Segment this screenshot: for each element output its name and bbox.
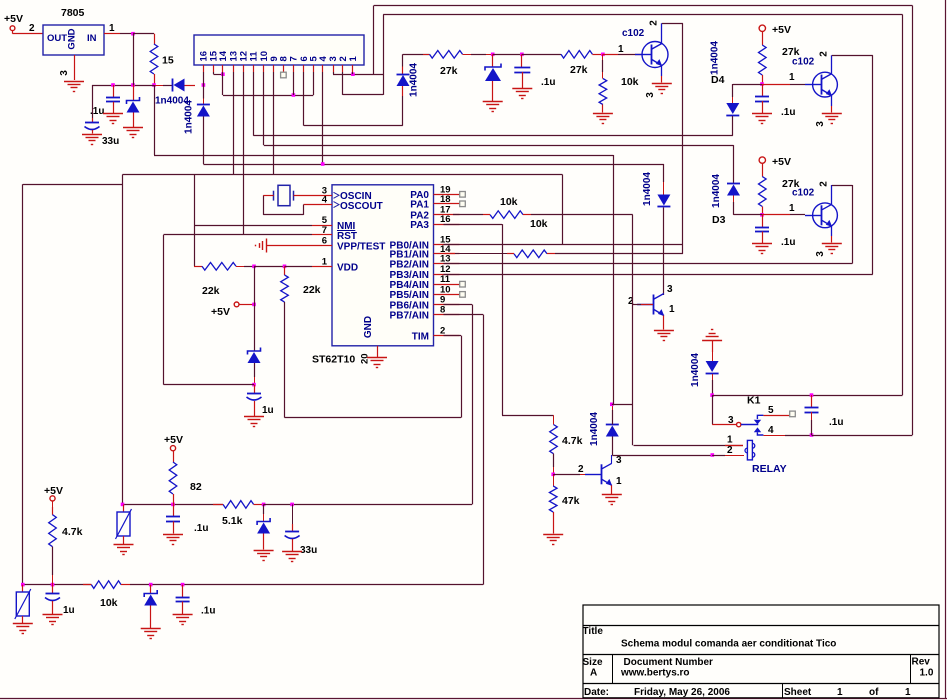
wire xyxy=(92,85,94,123)
pin 18 stub xyxy=(434,203,460,205)
svg-text:1: 1 xyxy=(616,476,622,487)
svg-text:6: 6 xyxy=(322,236,327,247)
wire xyxy=(712,395,902,397)
diode 1n4004 D1 xyxy=(155,79,189,107)
connector J1 pin 6 label xyxy=(299,56,310,61)
svg-text:+5V: +5V xyxy=(44,485,63,497)
pin 16 number xyxy=(440,214,451,225)
node junction xyxy=(152,83,156,87)
wire xyxy=(762,84,805,86)
connector J1 pin 16 label xyxy=(199,51,210,62)
node junction xyxy=(252,303,256,307)
wire xyxy=(113,85,115,97)
resistor 27k R4 xyxy=(759,45,800,75)
wire xyxy=(732,116,734,136)
svg-text:PA1: PA1 xyxy=(410,200,429,211)
svg-text:82: 82 xyxy=(190,481,202,493)
wire xyxy=(214,72,223,75)
connector J1 pin 15 label xyxy=(209,50,220,61)
wire xyxy=(682,23,684,254)
ground xyxy=(367,358,387,368)
wire xyxy=(663,164,665,195)
svg-text:1: 1 xyxy=(789,203,795,214)
ground xyxy=(13,624,33,634)
capacitor 1u C6 xyxy=(247,385,274,416)
wire xyxy=(812,435,913,437)
svg-text:4.7k: 4.7k xyxy=(62,526,83,538)
svg-text:A: A xyxy=(590,668,597,679)
wire xyxy=(562,175,564,245)
wire xyxy=(712,340,714,361)
wire xyxy=(233,72,235,175)
ground xyxy=(123,128,143,138)
node junction xyxy=(491,53,495,57)
ground xyxy=(43,615,63,625)
pin 11 number xyxy=(440,274,451,285)
title block text Date xyxy=(584,687,609,698)
connector J1 pin 12 label xyxy=(239,51,250,62)
wire xyxy=(273,72,275,175)
svg-text:PB7/AIN: PB7/AIN xyxy=(390,310,429,321)
wire xyxy=(832,185,853,187)
svg-text:GND: GND xyxy=(67,28,78,49)
svg-text:3: 3 xyxy=(815,251,826,257)
wire xyxy=(762,214,805,216)
pin name GND xyxy=(363,316,374,338)
wire xyxy=(154,74,156,85)
ground xyxy=(543,535,563,545)
wire xyxy=(173,521,175,533)
svg-text:2: 2 xyxy=(29,23,35,34)
svg-text:3: 3 xyxy=(616,455,622,466)
svg-text:PB2/AIN: PB2/AIN xyxy=(390,259,429,270)
svg-text:11: 11 xyxy=(249,51,260,62)
svg-text:10k: 10k xyxy=(621,76,639,88)
capacitor 1u C10 xyxy=(45,585,75,616)
diode zener D13 xyxy=(144,585,157,606)
svg-text:1u: 1u xyxy=(63,605,75,616)
svg-text:IN: IN xyxy=(87,33,97,44)
pin 11 stub xyxy=(434,284,460,286)
svg-text:Title: Title xyxy=(583,626,604,637)
svg-text:33u: 33u xyxy=(300,545,317,556)
pin 1 label xyxy=(616,476,622,487)
resistor 22k R7 xyxy=(281,275,321,302)
thermistor RT2 xyxy=(15,585,31,619)
diode 1n4004 D5 xyxy=(397,63,420,97)
wire xyxy=(284,266,286,275)
ground xyxy=(254,551,274,561)
svg-text:+5V: +5V xyxy=(164,434,183,446)
regulator U2 7805 xyxy=(43,25,104,55)
svg-text:22k: 22k xyxy=(202,285,220,297)
power +5V terminal xyxy=(211,302,239,318)
wire xyxy=(130,584,483,586)
pin 2 label xyxy=(727,445,733,456)
node junction xyxy=(283,265,287,269)
wire xyxy=(133,85,135,100)
pin 2 label xyxy=(578,464,584,475)
svg-text:33u: 33u xyxy=(102,136,119,147)
wire xyxy=(133,34,155,45)
wire xyxy=(243,72,245,235)
relay K1 contact common xyxy=(741,424,758,426)
wire xyxy=(602,105,604,113)
wire xyxy=(603,54,642,56)
svg-text:1u: 1u xyxy=(262,405,274,416)
thermistor RT1 xyxy=(116,504,132,539)
svg-text:1: 1 xyxy=(669,304,675,315)
svg-text:7805: 7805 xyxy=(61,7,85,19)
pin 5 number xyxy=(322,215,328,226)
svg-text:5: 5 xyxy=(768,405,774,416)
title block xyxy=(583,605,939,698)
wire xyxy=(831,96,833,113)
relay K1 pin 3 terminal xyxy=(712,415,741,427)
power +5V terminal xyxy=(759,24,791,36)
ground xyxy=(114,545,134,555)
wire xyxy=(521,54,523,67)
wire xyxy=(22,616,24,623)
pin 16 stub xyxy=(434,224,460,226)
wire xyxy=(444,274,873,276)
svg-text:2: 2 xyxy=(819,51,830,57)
ground xyxy=(483,102,503,112)
ground xyxy=(82,135,102,145)
connector J1 pin 7 label xyxy=(289,56,300,61)
pin name PB6/AIN xyxy=(390,300,429,311)
wire xyxy=(492,81,494,101)
wire xyxy=(712,455,744,457)
resistor 4.7k R10 xyxy=(550,425,583,454)
svg-text:1: 1 xyxy=(789,72,795,83)
pin 9 stub xyxy=(434,304,460,306)
diode 1n4004 D11 xyxy=(690,353,719,387)
svg-text:15: 15 xyxy=(162,55,174,67)
diode 1n4004 D10 xyxy=(589,412,619,446)
wire xyxy=(22,184,24,584)
ground xyxy=(752,114,772,124)
svg-text:RST: RST xyxy=(337,231,357,242)
resistor 27k R2 xyxy=(561,51,592,77)
wire xyxy=(203,72,205,85)
ground xyxy=(822,114,842,124)
ground xyxy=(103,114,123,124)
svg-text:3: 3 xyxy=(645,92,656,98)
wire xyxy=(373,6,375,75)
svg-text:27k: 27k xyxy=(440,65,458,77)
pin 4 number xyxy=(322,195,328,206)
wire xyxy=(194,266,202,268)
pin 20 stub xyxy=(360,346,378,364)
wire xyxy=(185,85,196,87)
wire xyxy=(133,113,135,128)
svg-text:10k: 10k xyxy=(100,597,118,609)
pin name PB2/AIN xyxy=(390,259,429,270)
pin 1 label xyxy=(618,44,624,55)
connector J1 pin 3 stub xyxy=(333,65,335,72)
wire xyxy=(734,214,763,216)
pin 1 number xyxy=(322,256,328,267)
wire xyxy=(662,23,683,25)
wire xyxy=(253,135,732,137)
svg-text:2: 2 xyxy=(649,20,660,26)
label D4 xyxy=(711,74,725,86)
svg-text:TIM: TIM xyxy=(412,331,429,342)
svg-text:Document Number: Document Number xyxy=(624,657,714,668)
transistor Q2 c102 xyxy=(792,57,837,98)
node junction xyxy=(321,162,325,166)
wire xyxy=(203,164,664,166)
wire xyxy=(831,226,833,242)
power +5V terminal xyxy=(44,485,63,501)
svg-text:VDD: VDD xyxy=(337,263,358,274)
pin name OSCOUT xyxy=(334,201,383,212)
diode 1n4004 D8 xyxy=(642,172,670,207)
pin 12 number xyxy=(440,264,451,275)
wire xyxy=(333,72,383,75)
pin 3 label xyxy=(815,121,826,127)
pin 17 stub xyxy=(434,214,460,216)
no-connect PA0 xyxy=(460,192,466,198)
relay K1 contact NC xyxy=(754,415,764,424)
svg-text:16: 16 xyxy=(440,214,451,225)
pin 18 number xyxy=(440,194,451,205)
wire xyxy=(463,54,493,56)
resistor 27k R5 xyxy=(759,177,800,207)
svg-text:22k: 22k xyxy=(303,284,321,296)
resistor 15 xyxy=(150,44,174,74)
relay K1 coil xyxy=(745,440,755,460)
node junction xyxy=(351,72,355,76)
svg-text:+5V: +5V xyxy=(772,156,791,168)
wire xyxy=(444,244,683,246)
node junction xyxy=(202,83,206,87)
diode 1n4004 D3 xyxy=(711,174,740,208)
node junction xyxy=(810,433,814,437)
svg-text:Sheet: Sheet xyxy=(784,687,812,698)
wire xyxy=(602,54,604,78)
capacitor 33u C2 xyxy=(85,123,120,148)
pin 7 stub xyxy=(322,234,332,236)
wire xyxy=(832,55,873,57)
svg-text:1.0: 1.0 xyxy=(920,668,934,679)
wire xyxy=(254,401,256,416)
node junction xyxy=(149,583,153,587)
title block text Title xyxy=(583,626,604,637)
node junction xyxy=(610,403,614,407)
relay K1 contact NO xyxy=(754,427,764,435)
pin 3 label xyxy=(645,92,656,98)
power +5V terminal xyxy=(759,156,791,168)
wire xyxy=(254,363,256,385)
svg-text:13: 13 xyxy=(440,254,451,265)
diode 1n4004 D4 xyxy=(710,41,740,116)
node junction xyxy=(551,473,555,477)
wire xyxy=(222,72,224,95)
node junction xyxy=(111,83,115,87)
pin 1 label xyxy=(789,203,795,214)
wire xyxy=(902,15,904,396)
pin 3 label xyxy=(815,251,826,257)
ground xyxy=(602,495,622,505)
connector J1 pin 3 label xyxy=(328,56,339,61)
title block text date value xyxy=(634,687,730,698)
capacitor .1u C11 xyxy=(176,585,216,617)
resistor 22k R6 xyxy=(202,263,236,298)
node junction xyxy=(181,583,185,587)
wire xyxy=(303,72,305,126)
connector J1 pin 5 stub xyxy=(313,65,315,72)
connector J1 pin 10 label xyxy=(259,51,270,62)
pin 14 stub xyxy=(434,253,460,255)
wire xyxy=(263,534,265,550)
wire xyxy=(811,412,813,435)
node junction xyxy=(810,393,814,397)
svg-text:+5V: +5V xyxy=(772,24,791,36)
wire xyxy=(444,253,508,255)
wire xyxy=(150,606,152,629)
wire xyxy=(123,174,563,176)
capacitor .1u C7 xyxy=(805,395,844,428)
svg-text:3: 3 xyxy=(667,284,673,295)
title block text Document Number xyxy=(624,657,714,668)
no-connect PB5 xyxy=(460,292,466,298)
pin 19 number xyxy=(440,184,451,195)
ground VPP xyxy=(256,239,323,253)
transistor Q3 c102 xyxy=(792,188,837,228)
wire xyxy=(52,547,54,585)
node junction xyxy=(520,53,524,57)
pin 6 stub xyxy=(322,245,332,247)
resistor 10k R8 xyxy=(490,196,523,218)
wire xyxy=(612,404,633,406)
wire xyxy=(52,601,54,614)
title block text 1.0 xyxy=(920,668,934,679)
svg-text:2: 2 xyxy=(819,181,830,187)
wire xyxy=(23,184,123,186)
pin 2 stub xyxy=(434,335,460,337)
no-connect PA1 xyxy=(460,201,466,207)
no-connect relay pin 5 xyxy=(790,411,796,417)
svg-text:7: 7 xyxy=(289,56,300,61)
wire xyxy=(123,536,125,544)
wire xyxy=(203,117,205,165)
wire xyxy=(173,451,175,462)
pin 2 label xyxy=(628,296,634,307)
connector J1 pin 4 stub xyxy=(322,65,324,72)
no-connect PB4 xyxy=(460,281,466,287)
capacitor 33u C9 xyxy=(285,504,318,556)
svg-text:c102: c102 xyxy=(792,57,815,68)
pin name VDD xyxy=(337,263,358,274)
connector J1 pin 10 stub xyxy=(263,65,265,72)
svg-text:Date:: Date: xyxy=(584,687,609,698)
svg-text:4: 4 xyxy=(322,195,328,206)
resistor 47k R11 xyxy=(549,474,579,512)
wire xyxy=(343,15,384,95)
wire xyxy=(23,584,92,586)
svg-text:GND: GND xyxy=(363,316,374,338)
wire xyxy=(733,145,735,184)
svg-text:14: 14 xyxy=(218,50,229,61)
node junction xyxy=(131,32,135,36)
wire xyxy=(163,235,165,385)
wire xyxy=(164,384,255,386)
wire xyxy=(502,224,554,415)
connector J1 pin 16 stub xyxy=(203,65,205,72)
node junction xyxy=(710,393,714,397)
svg-text:.1u: .1u xyxy=(541,77,555,88)
ground xyxy=(64,82,84,92)
wire xyxy=(733,84,762,86)
pin 3 stub xyxy=(322,195,332,197)
wire xyxy=(203,85,205,105)
title block text Rev xyxy=(912,657,931,668)
wire xyxy=(522,54,561,56)
svg-text:Size: Size xyxy=(583,657,603,668)
wire xyxy=(444,263,853,265)
pin 3 label xyxy=(59,70,70,76)
connector J1 pin 13 stub xyxy=(233,65,235,72)
ground xyxy=(654,331,674,341)
svg-text:1n4004: 1n4004 xyxy=(409,63,420,97)
wire xyxy=(553,512,555,534)
pin 3 label xyxy=(667,284,673,295)
pin 5 stub xyxy=(322,225,332,227)
svg-text:1: 1 xyxy=(905,687,911,698)
svg-text:1n4004: 1n4004 xyxy=(711,174,722,208)
wire xyxy=(13,33,44,35)
svg-text:7: 7 xyxy=(322,225,327,236)
pin name PB4/AIN xyxy=(390,280,429,291)
wire xyxy=(164,234,323,236)
wire xyxy=(831,185,833,204)
microcontroller U1 ST62T10 xyxy=(312,185,434,366)
wire xyxy=(531,214,633,216)
wire xyxy=(173,494,175,504)
wire xyxy=(374,5,913,7)
wire xyxy=(912,6,914,436)
svg-text:2: 2 xyxy=(578,464,584,475)
wire xyxy=(293,72,295,95)
pin 1 label xyxy=(669,304,675,315)
capacitor .1u C4 xyxy=(755,84,795,118)
wire xyxy=(762,32,764,46)
node junction xyxy=(290,503,294,507)
title block text Size xyxy=(583,657,603,679)
capacitor .1u C8 xyxy=(166,504,208,534)
relay K1 pin 4 xyxy=(763,425,811,436)
wire xyxy=(613,155,615,404)
wire xyxy=(762,232,764,244)
pin 15 number xyxy=(440,235,451,246)
wire xyxy=(304,125,403,127)
node junction xyxy=(171,503,175,507)
pin 13 stub xyxy=(434,263,460,265)
wire xyxy=(402,86,404,126)
svg-text:.1u: .1u xyxy=(781,107,795,118)
ground xyxy=(593,114,613,124)
wire xyxy=(285,336,462,418)
svg-text:RELAY: RELAY xyxy=(752,463,787,475)
wire xyxy=(852,185,854,264)
ground xyxy=(244,417,264,427)
connector J1 pin 11 stub xyxy=(253,65,255,72)
label RELAY xyxy=(752,463,787,475)
crystal Y1 xyxy=(274,185,294,205)
wire xyxy=(264,504,472,506)
